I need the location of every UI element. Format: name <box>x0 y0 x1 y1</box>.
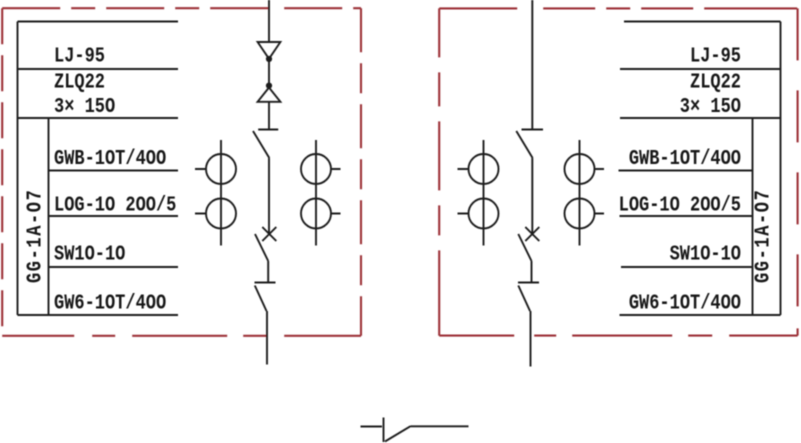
svg-text:LJ-95: LJ-95 <box>54 44 105 68</box>
svg-text:LOG-1O 2OO/5: LOG-1O 2OO/5 <box>54 193 176 217</box>
svg-text:3× 15O: 3× 15O <box>680 94 741 118</box>
svg-text:LOG-1O 2OO/5: LOG-1O 2OO/5 <box>619 193 741 217</box>
svg-text:SW1O-1O: SW1O-1O <box>54 242 125 266</box>
svg-text:GW6-1OT/4OO: GW6-1OT/4OO <box>54 291 166 315</box>
svg-text:GWB-1OT/4OO: GWB-1OT/4OO <box>629 146 741 170</box>
svg-text:GG-1A-O7: GG-1A-O7 <box>23 189 47 283</box>
svg-text:GW6-1OT/4OO: GW6-1OT/4OO <box>629 291 741 315</box>
svg-text:GWB-1OT/4OO: GWB-1OT/4OO <box>54 146 166 170</box>
svg-text:GG-1A-O7: GG-1A-O7 <box>751 189 775 283</box>
svg-text:3× 15O: 3× 15O <box>54 94 115 118</box>
svg-text:ZLQ22: ZLQ22 <box>690 70 741 94</box>
svg-text:LJ-95: LJ-95 <box>690 44 741 68</box>
svg-text:SW1O-1O: SW1O-1O <box>670 242 741 266</box>
svg-text:ZLQ22: ZLQ22 <box>54 70 105 94</box>
